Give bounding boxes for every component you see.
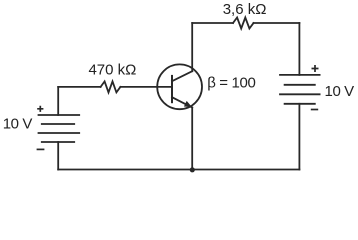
minus sign right battery xyxy=(311,109,318,111)
battery 10 V right: plate 2 short xyxy=(285,84,315,86)
transistor Q1 circle (NPN) xyxy=(157,64,202,109)
transistor Q1 base bar xyxy=(171,76,173,102)
wire left vertical (bottom rail up to battery - plate) xyxy=(57,142,59,170)
transistor Q1 emitter diagonal xyxy=(172,97,192,107)
wire emitter vertical (circle down to bottom rail) xyxy=(191,108,193,170)
wire right vertical (top rail down to battery + plate) xyxy=(298,23,300,75)
wire right vertical (battery - plate down to bottom rail) xyxy=(298,104,300,170)
plus sign right battery xyxy=(312,65,319,72)
svg-text:10 V: 10 V xyxy=(3,116,33,133)
battery 10 V right: plate 1 long (+) xyxy=(280,74,320,76)
wire base right segment (470k resistor to transistor base bar) xyxy=(120,86,171,88)
wire base left segment (left corner to 470k resistor) xyxy=(58,86,100,88)
battery 10 V left: plate 4 short (-) xyxy=(42,141,74,143)
plus sign left battery xyxy=(37,106,43,112)
minus sign left battery xyxy=(37,148,45,150)
svg-text:10 V: 10 V xyxy=(325,83,355,100)
wire left vertical (battery + plate up to base wire) xyxy=(57,87,59,115)
battery 10 V left: plate 3 long xyxy=(39,132,80,134)
svg-text:470 kΩ: 470 kΩ xyxy=(88,62,136,79)
battery 10 V right: plate 4 short (-) xyxy=(285,103,315,105)
wire top rail left segment (collector to 3,6k resistor) xyxy=(192,22,233,24)
wire collector vertical (diagonal up to top rail) xyxy=(191,23,193,71)
wire bottom rail xyxy=(58,169,299,171)
resistor 3,6 kOhm zigzag xyxy=(233,18,254,29)
battery 10 V left: plate 2 short xyxy=(42,123,74,125)
svg-text:β = 100: β = 100 xyxy=(207,74,255,91)
transistor Q1 collector diagonal xyxy=(172,71,192,81)
transistor Q1 emitter arrowhead xyxy=(184,101,192,107)
svg-text:3,6 kΩ: 3,6 kΩ xyxy=(223,1,267,18)
battery 10 V left: plate 1 long (+) xyxy=(39,114,80,116)
resistor 470 kOhm zigzag xyxy=(101,81,121,92)
wire top rail right segment (3,6k resistor to right corner) xyxy=(254,22,300,24)
battery 10 V right: plate 3 long xyxy=(280,93,320,95)
junction dot (emitter to bottom rail) xyxy=(190,167,195,172)
